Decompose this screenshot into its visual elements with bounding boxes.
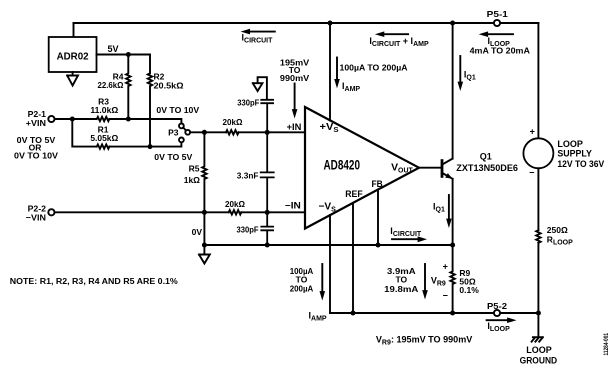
arrow ILOOP bottom bbox=[487, 319, 509, 321]
connector P2-1 bbox=[48, 116, 54, 122]
transistor Q1 emitter stroke bbox=[443, 174, 452, 179]
ground 0V bbox=[199, 245, 210, 264]
capacitor 330pF top bbox=[261, 100, 273, 133]
svg-text:LOOP: LOOP bbox=[526, 345, 552, 355]
arrow ICIRCUIT plus IAMP bbox=[383, 33, 409, 35]
resistor R4 22.6k bbox=[126, 55, 130, 120]
svg-text:ADR02: ADR02 bbox=[57, 50, 89, 62]
arrow IQ1 top annotation bbox=[459, 56, 461, 83]
transistor Q1 emitter arrowhead bbox=[445, 173, 452, 179]
svg-text:20kΩ: 20kΩ bbox=[225, 199, 245, 209]
svg-text:0V TO 5V: 0V TO 5V bbox=[154, 152, 192, 162]
svg-text:11284-001: 11284-001 bbox=[604, 332, 610, 355]
node R9 bottom junction bbox=[450, 311, 455, 316]
svg-text:Q1: Q1 bbox=[480, 151, 492, 161]
svg-text:SUPPLY: SUPPLY bbox=[557, 148, 592, 158]
svg-text:200µA: 200µA bbox=[290, 284, 314, 294]
node branch junction on +VIN bbox=[70, 117, 75, 122]
wire Q1 collector to top rail bbox=[452, 23, 454, 159]
resistor R1 5.05k bbox=[97, 144, 110, 148]
wire P3 common to 20k bbox=[190, 131, 226, 133]
resistor R3 11.0k bbox=[97, 117, 110, 121]
connector P5-2 bbox=[494, 310, 500, 316]
wire 5V from ADR02 to R2 top bbox=[97, 54, 151, 56]
ground above top 330pF bbox=[253, 77, 267, 98]
wire ADR02 top stem bbox=[73, 23, 75, 37]
wire supply to RLOOP bbox=[537, 168, 539, 230]
node R4 bottom junction bbox=[126, 117, 131, 122]
resistor 20k lower bbox=[229, 210, 242, 214]
capacitor 330pF bottom bbox=[261, 212, 273, 245]
svg-text:11.0kΩ: 11.0kΩ bbox=[90, 105, 118, 115]
wire P5-2 to loop ground column bbox=[500, 312, 538, 314]
wire REF pin down bbox=[352, 203, 354, 313]
arrow ICIRCUIT top left bbox=[249, 31, 275, 33]
svg-text:AD8420: AD8420 bbox=[324, 157, 361, 173]
svg-text:LOOP: LOOP bbox=[557, 139, 583, 149]
switch P3 throw top bbox=[179, 124, 184, 129]
wire bottom 0V rail bbox=[204, 244, 452, 246]
svg-text:0.1%: 0.1% bbox=[459, 285, 479, 295]
node loop ground column junction bbox=[536, 311, 541, 316]
arrow 3.9mA annotation bbox=[424, 264, 426, 292]
wire +VIN branch down to R1 bbox=[72, 119, 96, 147]
svg-text:FB: FB bbox=[372, 179, 383, 190]
arrow ICIRCUIT bottom bbox=[392, 238, 419, 240]
connector P2-2 bbox=[48, 209, 54, 215]
connector P5-1 bbox=[494, 20, 500, 26]
capacitor 3.3nF bbox=[261, 132, 274, 212]
svg-text:P3: P3 bbox=[168, 128, 179, 138]
ground under ADR02 bbox=[67, 72, 78, 86]
node ground stem junction bbox=[202, 243, 207, 248]
svg-text:+: + bbox=[530, 127, 535, 137]
node REF bottom junction bbox=[351, 311, 356, 316]
arrow IQ1 bottom annotation bbox=[448, 195, 450, 220]
svg-text:P5-2: P5-2 bbox=[487, 301, 507, 311]
wire 20k to +IN bbox=[239, 131, 305, 133]
resistor R5 1k bbox=[202, 132, 206, 212]
wire P2-2 to 20k lower bbox=[55, 211, 229, 213]
wire R3 to P3 top throw bbox=[109, 119, 181, 123]
svg-text:5V: 5V bbox=[108, 44, 119, 54]
svg-text:0V: 0V bbox=[192, 227, 203, 237]
node R2 bottom junction bbox=[148, 144, 153, 149]
source V1 loop supply bbox=[523, 138, 553, 168]
node 330pF bottom junction bbox=[265, 243, 270, 248]
svg-text:+: + bbox=[443, 262, 448, 272]
svg-text:−VIN: −VIN bbox=[26, 213, 46, 223]
svg-text:R5: R5 bbox=[189, 164, 200, 174]
resistor R2 20.5k bbox=[148, 55, 152, 147]
svg-text:−: − bbox=[529, 168, 534, 178]
wire Q1 emitter down to 0V rail bbox=[452, 179, 454, 245]
svg-text:NOTE: R1, R2, R3, R4 AND R5 AR: NOTE: R1, R2, R3, R4 AND R5 ARE 0.1% bbox=[10, 276, 178, 286]
svg-text:4mA TO 20mA: 4mA TO 20mA bbox=[470, 46, 530, 56]
node cap junction on -IN line bbox=[265, 210, 270, 215]
svg-text:0V TO 10V: 0V TO 10V bbox=[156, 105, 199, 115]
transistor Q1 base bar bbox=[441, 159, 444, 178]
wire FB pin down bbox=[377, 190, 379, 245]
switch P3 common bbox=[185, 130, 190, 135]
wire 20k lower to -IN bbox=[241, 211, 305, 213]
switch P3 blade bbox=[183, 128, 186, 131]
node R5 top junction bbox=[202, 130, 207, 135]
arrow IAMP top annotation bbox=[336, 58, 338, 81]
wire supply column top bbox=[537, 23, 539, 138]
svg-text:250Ω: 250Ω bbox=[547, 225, 568, 235]
arrow 195mV input annotation bbox=[294, 84, 296, 111]
svg-text:12V TO 36V: 12V TO 36V bbox=[557, 159, 604, 169]
node 5V junction R4 top bbox=[126, 52, 131, 57]
svg-text:990mV: 990mV bbox=[280, 73, 310, 83]
svg-text:330pF: 330pF bbox=[237, 225, 259, 235]
switch P3 throw bottom bbox=[179, 138, 184, 143]
svg-text:+VIN: +VIN bbox=[26, 118, 46, 128]
wire top rail right of P5-1 to supply column corner bbox=[500, 22, 538, 24]
wire P2-1 to R3 bbox=[55, 118, 97, 120]
svg-text:3.3nF: 3.3nF bbox=[237, 171, 259, 181]
node emitter column junction on 0V rail bbox=[450, 243, 455, 248]
node R5 bottom junction bbox=[202, 210, 207, 215]
wire +VS pin to top rail bbox=[329, 23, 331, 120]
resistor R9 50R bbox=[450, 245, 454, 313]
svg-text:GROUND: GROUND bbox=[520, 356, 558, 366]
node junction Q1 collector on top rail bbox=[450, 21, 455, 26]
svg-text:1kΩ: 1kΩ bbox=[184, 175, 200, 185]
wire IAMP rail bbox=[330, 312, 494, 314]
resistor 20k upper bbox=[226, 130, 239, 134]
arrow ILOOP top bbox=[487, 33, 514, 35]
voltage reference U2 ADR02 bbox=[49, 37, 97, 72]
ground chassis loop ground bbox=[532, 337, 543, 341]
svg-text:19.8mA: 19.8mA bbox=[384, 284, 418, 294]
svg-text:22.6kΩ: 22.6kΩ bbox=[98, 80, 124, 90]
node cap junction on +IN line bbox=[265, 130, 270, 135]
wire R1 to P3 bottom throw bbox=[109, 143, 181, 147]
transistor Q1 collector stroke bbox=[443, 159, 452, 164]
node FB junction bbox=[376, 243, 381, 248]
wire -VS pin down to IAMP rail bbox=[329, 215, 331, 313]
svg-text:5.05kΩ: 5.05kΩ bbox=[90, 133, 118, 143]
svg-text:0V TO 10V: 0V TO 10V bbox=[14, 151, 58, 161]
wire 0V segment bbox=[203, 212, 205, 245]
svg-text:100µA TO 200µA: 100µA TO 200µA bbox=[340, 63, 408, 73]
wire VOUT to Q1 base bbox=[419, 167, 441, 169]
wire top rail left of P5-1 bbox=[74, 22, 494, 24]
svg-text:+IN: +IN bbox=[287, 122, 302, 132]
svg-text:P5-1: P5-1 bbox=[487, 9, 509, 19]
svg-text:20kΩ: 20kΩ bbox=[223, 117, 243, 127]
svg-text:−: − bbox=[443, 291, 448, 301]
svg-text:330pF: 330pF bbox=[237, 97, 259, 107]
op-amp U1 AD8420 bbox=[305, 107, 419, 229]
svg-text:−IN: −IN bbox=[285, 200, 301, 210]
wire RLOOP to loop ground bbox=[537, 243, 539, 337]
svg-text:REF: REF bbox=[345, 189, 362, 200]
svg-text:20.5kΩ: 20.5kΩ bbox=[154, 81, 184, 91]
arrow IAMP bottom annotation bbox=[321, 264, 323, 293]
resistor RLOOP 250R bbox=[536, 230, 540, 243]
svg-text:ZXT13N50DE6: ZXT13N50DE6 bbox=[456, 163, 518, 173]
node junction +VS on top rail bbox=[328, 21, 333, 26]
